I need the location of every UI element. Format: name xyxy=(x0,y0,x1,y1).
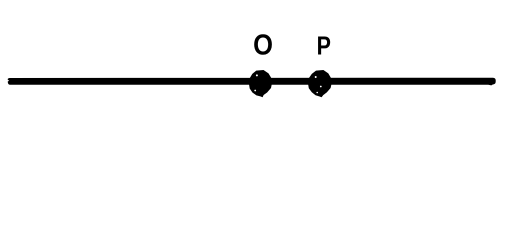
point O (dot) xyxy=(249,70,272,97)
point P (dot) xyxy=(308,70,332,97)
svg-text:O: O xyxy=(253,28,273,61)
svg-text:P: P xyxy=(317,32,331,60)
line segment through O and P xyxy=(8,78,496,86)
